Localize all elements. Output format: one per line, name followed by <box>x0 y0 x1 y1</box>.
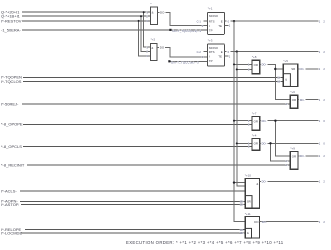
bus1 vertical from U1 E <box>234 21 245 221</box>
svg-text:*-8_RECINIT: *-8_RECINIT <box>1 162 25 167</box>
or-gate U6 <box>290 95 298 108</box>
svg-text:DO-: DO- <box>300 67 305 71</box>
svg-text:1-: 1- <box>285 163 287 167</box>
U8 output wire to U5 and U6 <box>267 64 290 99</box>
svg-text:DO-: DO- <box>300 154 305 158</box>
U7 output wire to right edge <box>267 120 318 122</box>
junction bus1 U7 <box>233 120 235 122</box>
U9 output stub <box>298 155 299 157</box>
net marker T_TQCC(m) <box>168 60 170 62</box>
svg-text:*-8_OPOPE: *-8_OPOPE <box>1 122 23 127</box>
svg-text:DO-: DO- <box>262 220 267 224</box>
monostable U2 <box>208 44 225 66</box>
svg-text:DO-: DO- <box>300 98 305 102</box>
svg-text:*-8_OPCLS: *-8_OPCLS <box>1 144 22 149</box>
wire ASTOP to U10 <box>21 204 245 206</box>
junction bus2 U4 <box>236 142 238 144</box>
wire bus2 tap to U4 pin1 <box>237 142 252 144</box>
junction U7 out <box>274 120 276 122</box>
wire bus1 tap to U10 pin1 <box>234 182 245 184</box>
svg-text:OR: OR <box>254 120 258 124</box>
svg-text:*+9: *+9 <box>290 147 295 151</box>
monostable U1 <box>208 12 225 34</box>
junction bus1 top <box>233 20 235 22</box>
wire U1 E to right edge <box>230 20 318 22</box>
wire AOPN to U10 <box>20 200 245 202</box>
svg-text:10-: 10- <box>277 80 281 84</box>
svg-text:11-: 11- <box>277 75 281 79</box>
U10 output stub <box>260 180 262 182</box>
svg-text:TP: TP <box>209 29 213 33</box>
wire I2 <box>22 15 151 17</box>
svg-text:DO-: DO- <box>262 119 267 123</box>
U5 sub and-box <box>283 74 290 87</box>
svg-text:DO: DO <box>160 11 165 15</box>
U5 output wire <box>305 68 318 70</box>
wire U4 branch to U9 pin2 <box>271 143 291 161</box>
wire ACLS to U10 <box>20 190 245 192</box>
svg-text:I*-TQCLOS: I*-TQCLOS <box>1 79 22 84</box>
svg-text:DO: DO <box>254 220 259 224</box>
U7 output stub <box>260 120 261 122</box>
svg-text:DO-: DO- <box>262 180 267 184</box>
svg-text:*+7: *+7 <box>252 112 257 116</box>
junction bus1 U8 <box>233 63 235 65</box>
svg-text:1-: 1- <box>285 102 287 106</box>
or-gate U7 <box>252 117 260 131</box>
svg-text:SR: SR <box>291 67 295 71</box>
wire tap I3 to A2 pin3 <box>139 21 151 56</box>
svg-text:DO-: DO- <box>262 63 267 67</box>
wire LOCMDE to U11 <box>21 232 245 234</box>
wire I3 <box>22 20 151 22</box>
latch U5 <box>283 64 298 86</box>
svg-text:DO: DO <box>160 46 165 50</box>
svg-text:RTS: RTS <box>209 50 215 54</box>
net marker T_TQCC(m+1) <box>169 29 171 31</box>
wire U2 E to right edge <box>230 51 318 53</box>
svg-text:E: E <box>221 50 223 54</box>
svg-text:&: & <box>151 46 153 50</box>
A1 output wire to U1 pin I <box>165 12 207 25</box>
U5 output stub <box>298 68 299 70</box>
svg-text:TP: TP <box>209 59 213 63</box>
svg-text:EXECUTION ORDER: * +*1 +*2 +*3: EXECUTION ORDER: * +*1 +*2 +*3 +*4 +*5 +… <box>126 240 284 245</box>
wire bus2 tap to U8 pin2 <box>237 68 252 70</box>
wire OPOPE to U7 <box>23 123 252 125</box>
svg-text:&: & <box>256 182 258 186</box>
U9 output wire <box>306 155 319 157</box>
junction tap I3 <box>138 20 140 22</box>
junction U4 out <box>269 142 271 144</box>
U2 E output stub <box>224 51 226 53</box>
wire bus1 tap to U7 pin1 <box>234 120 252 122</box>
U1 RTS input stub <box>204 20 208 22</box>
svg-text:*+10: *+10 <box>245 173 252 177</box>
svg-text:E: E <box>221 19 223 23</box>
svg-text:&: & <box>247 231 249 235</box>
svg-text:C-2: C-2 <box>197 50 202 54</box>
svg-text:Dm-T_TQCC(m+1)--3: Dm-T_TQCC(m+1)--3 <box>173 29 202 33</box>
junction bus2 top <box>236 50 238 52</box>
svg-text:-1_50ERA-: -1_50ERA- <box>1 27 21 32</box>
junction bus2 U8 <box>236 68 238 70</box>
wire branch to U5 pin1 <box>275 68 283 70</box>
latch U10 <box>245 178 259 208</box>
wire I4 to U2 pin TP <box>22 29 208 31</box>
and-gate A2 <box>150 43 157 60</box>
U8 output stub <box>260 63 261 65</box>
svg-text:*+8: *+8 <box>252 55 257 59</box>
svg-text:I*-ASTOP.: I*-ASTOP. <box>1 202 19 207</box>
wire RECINIT to U9 <box>27 164 290 166</box>
svg-text:RTS: RTS <box>209 19 215 23</box>
svg-text:*+3: *+3 <box>208 38 213 42</box>
wire bus1 tap to U8 pin1 <box>234 63 252 65</box>
A2 output wire to U2 pin I <box>165 47 207 57</box>
svg-text:TE: TE <box>218 54 222 58</box>
svg-text:&: & <box>152 11 154 15</box>
junction tap I2 <box>140 15 142 17</box>
junction tap I1 <box>143 11 145 13</box>
or-gate U4 <box>252 138 260 150</box>
svg-text:SR: SR <box>247 200 251 204</box>
svg-text:OR: OR <box>254 63 258 67</box>
svg-text:&: & <box>285 77 287 81</box>
svg-text:1D-: 1D- <box>240 203 244 207</box>
svg-text:1-: 1- <box>285 159 287 163</box>
svg-text:I*-50REJ-: I*-50REJ- <box>1 101 19 106</box>
svg-text:*+1: *+1 <box>208 7 213 11</box>
wire 50REJ to U6 <box>22 103 290 105</box>
wire U7 branch to U9 pin1 <box>275 121 290 156</box>
U4 output stub <box>260 142 261 144</box>
U11 sub and-box <box>245 228 251 238</box>
A2 output stub <box>157 46 159 48</box>
svg-text:1D-: 1D- <box>240 231 244 235</box>
svg-text:*+5: *+5 <box>283 59 288 63</box>
or-gate U9 <box>290 151 298 169</box>
svg-text:OR: OR <box>254 141 258 145</box>
bus2 vertical from U2 E <box>237 52 246 187</box>
svg-text:I*-LOCMDE: I*-LOCMDE <box>1 230 22 235</box>
wire U2 pin TP <box>168 60 207 62</box>
wire TQOPEN to U5 <box>23 76 283 78</box>
svg-text:*+2: *+2 <box>151 37 156 41</box>
U6 output stub <box>298 99 299 101</box>
svg-text:OR: OR <box>292 154 296 158</box>
U1 TE output stub <box>224 24 228 26</box>
U2 TE output stub <box>224 55 228 57</box>
svg-text:I*-ACLS-: I*-ACLS- <box>1 188 17 193</box>
U2 RTS input stub <box>204 51 208 53</box>
U10 output wire to right edge <box>267 180 318 182</box>
svg-text:C-1: C-1 <box>197 19 202 23</box>
U11 output wire to right edge <box>260 221 319 223</box>
wire tap I2 to A2 pin2 <box>141 16 150 51</box>
and-gate A1 <box>151 7 158 25</box>
svg-text:TE: TE <box>218 24 222 28</box>
junction U8 out <box>274 68 276 70</box>
wire OPCLS to U4 <box>23 146 252 148</box>
U6 output wire <box>306 99 319 101</box>
svg-text:I*-RESTOV: I*-RESTOV <box>1 18 22 23</box>
U1 E output stub <box>224 20 226 22</box>
svg-text:1D-: 1D- <box>240 228 244 232</box>
svg-text:DO-: DO- <box>262 142 267 146</box>
svg-text:Dm-T_TQCC(m)--3: Dm-T_TQCC(m)--3 <box>171 61 199 65</box>
or-gate U8 <box>252 60 260 73</box>
svg-text:MONO: MONO <box>209 14 219 18</box>
svg-text:*+4: *+4 <box>252 134 257 138</box>
svg-text:*+6: *+6 <box>290 90 295 94</box>
junction bus1 U10 <box>233 181 235 183</box>
svg-text:OR: OR <box>292 98 296 102</box>
A1 output stub <box>157 11 159 13</box>
wire I1 <box>22 11 151 13</box>
U10 sub latch box <box>245 196 252 209</box>
wire TQCLOS to U5 <box>23 80 283 82</box>
U4 output wire to right edge <box>267 142 318 144</box>
wire RELOPE to U11 <box>25 229 245 231</box>
wire tap I1 to A2 pin1 <box>144 12 151 47</box>
svg-text:*+11: *+11 <box>245 212 251 216</box>
latch U11 <box>245 217 259 239</box>
